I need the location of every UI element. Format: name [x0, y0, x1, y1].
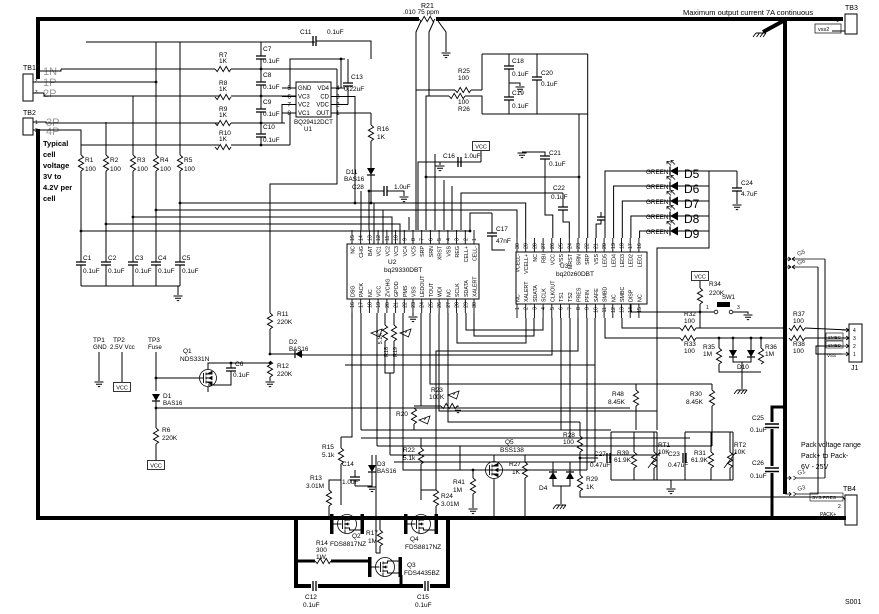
svg-text:13: 13: [620, 307, 626, 313]
junction: [132, 216, 135, 219]
wire R13 to Q2 gate: [328, 506, 330, 512]
LED D5 green: [670, 167, 678, 176]
svg-text:2: 2: [463, 238, 469, 241]
svg-text:PMS: PMS: [403, 285, 409, 297]
svg-text:TB1: TB1: [23, 65, 36, 72]
svg-text:SRP: SRP: [585, 254, 591, 265]
U2 pin 7 SRP: [421, 230, 423, 244]
svg-text:C15: C15: [417, 594, 429, 601]
svg-text:NC: NC: [516, 294, 522, 302]
svg-text:8.45K: 8.45K: [608, 399, 626, 406]
resistor R25 100: [455, 87, 471, 92]
wire FET block left: [294, 518, 298, 587]
svg-text:SDATA: SDATA: [464, 280, 470, 297]
U2 pin 20 ZVCHG: [386, 299, 388, 313]
wire: [494, 455, 525, 461]
wire: [579, 452, 581, 475]
svg-text:GREEN: GREEN: [646, 229, 669, 236]
wire: [553, 479, 570, 486]
svg-text:GREEN: GREEN: [646, 199, 669, 206]
svg-text:TB2: TB2: [23, 110, 36, 117]
wire: [524, 478, 526, 518]
svg-text:0.1uF: 0.1uF: [182, 268, 199, 275]
svg-text:0.22uF: 0.22uF: [344, 86, 364, 93]
svg-text:19: 19: [376, 302, 382, 308]
wire C22 top: [562, 193, 564, 207]
wire R25 out: [471, 89, 482, 91]
capacitor C3 0.1uF: [128, 262, 138, 265]
resistor R17 1M: [377, 530, 382, 546]
svg-text:VC2: VC2: [385, 246, 391, 256]
svg-text:SCLK: SCLK: [542, 288, 548, 302]
wire RT rail: [361, 429, 611, 431]
svg-text:1: 1: [35, 120, 38, 126]
resistor R32 100: [680, 325, 696, 330]
svg-text:0.1uF: 0.1uF: [263, 58, 280, 65]
svg-text:0.1uF: 0.1uF: [263, 84, 280, 91]
J1 pin 3: [842, 336, 849, 340]
svg-text:NC: NC: [533, 254, 539, 262]
resistor R30 8.45K: [709, 390, 714, 406]
wire: [678, 170, 737, 172]
ground below C5: [174, 296, 183, 301]
wire FET block right: [446, 518, 450, 587]
wire: [569, 462, 571, 472]
svg-text:BAS16: BAS16: [289, 346, 309, 353]
svg-text:22: 22: [585, 243, 591, 249]
svg-text:R29: R29: [586, 476, 598, 483]
U3 pin 1 NC: [516, 304, 518, 318]
svg-text:61.9K: 61.9K: [614, 457, 632, 464]
capacitor C4 0.1uF: [151, 262, 161, 265]
wire: [435, 506, 437, 512]
wire 1P: [33, 81, 156, 83]
svg-text:R1: R1: [85, 157, 94, 164]
diode D1 BAS16: [152, 394, 160, 401]
wire: [413, 424, 415, 430]
wire: [492, 236, 505, 250]
svg-text:4.7uF: 4.7uF: [741, 191, 758, 198]
svg-text:4: 4: [446, 238, 452, 241]
capacitor C22 0.1uF: [558, 207, 568, 210]
wire R5 to C5: [179, 171, 181, 262]
svg-text:5: 5: [550, 307, 556, 310]
U3 pin 4 SCLK: [542, 304, 544, 318]
svg-text:C22: C22: [553, 185, 565, 192]
svg-text:8: 8: [576, 307, 582, 310]
svg-text:10: 10: [593, 307, 599, 313]
svg-text:.010 75 ppm: .010 75 ppm: [403, 9, 439, 16]
junction: [155, 377, 158, 380]
svg-text:100: 100: [563, 439, 574, 446]
VCC label R6: [148, 461, 165, 470]
resistor R16 1K: [368, 125, 373, 141]
wire: [382, 210, 384, 244]
capacitor C20 0.1uF: [532, 77, 542, 80]
wire C16 rail: [440, 161, 481, 163]
junction: [155, 407, 158, 410]
svg-text:0.47uF: 0.47uF: [668, 462, 688, 469]
svg-text:SMBC: SMBC: [620, 287, 626, 302]
svg-text:GREEN: GREEN: [646, 214, 669, 221]
svg-text:0.1uF: 0.1uF: [541, 81, 558, 88]
wire U1 pin 3: [331, 96, 345, 98]
wire OUT right: [345, 112, 371, 114]
resistor R10 1K: [215, 144, 231, 149]
svg-text:NC: NC: [351, 246, 357, 254]
wire R33 out: [696, 337, 785, 339]
svg-text:BAS16: BAS16: [377, 468, 397, 475]
wire VD4 up: [340, 59, 342, 88]
svg-text:1.0uF: 1.0uF: [464, 153, 481, 160]
junction: [370, 202, 373, 205]
wire R3 riser: [132, 96, 134, 155]
svg-text:R32: R32: [684, 311, 696, 318]
svg-text:1K: 1K: [219, 112, 228, 119]
wire: [552, 462, 554, 472]
svg-text:R31: R31: [694, 450, 706, 457]
transistor Q4 FDS8817NZ: [404, 514, 408, 534]
wire: [329, 480, 341, 490]
svg-text:10: 10: [394, 235, 400, 241]
resistor R23 100K: [441, 403, 457, 408]
wire C25 branch top: [772, 407, 785, 422]
U3 pin 21 VSS: [594, 238, 596, 252]
svg-text:C12: C12: [305, 594, 317, 601]
connector J1: [849, 324, 862, 362]
wire: [653, 432, 655, 452]
svg-text:0.1uF: 0.1uF: [512, 103, 529, 110]
wire U1 pin 2: [331, 104, 345, 106]
junction: [425, 176, 428, 179]
svg-text:0.1uF: 0.1uF: [83, 268, 100, 275]
svg-text:2P: 2P: [43, 88, 56, 100]
U2 pin 6 SRN: [429, 230, 431, 244]
svg-text:S001: S001: [845, 599, 861, 606]
svg-text:1: 1: [472, 238, 478, 241]
svg-text:SDATA: SDATA: [533, 285, 539, 302]
ground at C16: [436, 166, 445, 171]
U3 pin 19 LED4: [612, 238, 614, 252]
U3 pin 5 CLKOUT: [551, 304, 553, 318]
wire C26 to PACK+ rail: [771, 473, 774, 518]
wire D10 to gnd: [741, 362, 743, 389]
svg-text:3: 3: [853, 336, 856, 342]
wire cell bus 3: [133, 217, 392, 244]
U3 pin 28 NC: [533, 238, 535, 252]
svg-text:20: 20: [385, 302, 391, 308]
wire R5 riser: [179, 42, 181, 155]
svg-text:25: 25: [428, 302, 434, 308]
wire: [610, 432, 612, 480]
connector TB3: [845, 14, 857, 34]
svg-text:Q4: Q4: [410, 536, 419, 543]
wire D1 bus right: [156, 407, 630, 409]
wire down to bus: [370, 191, 372, 203]
wire R38 to J1: [805, 337, 849, 339]
svg-text:2: 2: [853, 344, 856, 350]
svg-text:0.1uF: 0.1uF: [158, 268, 175, 275]
svg-text:C5: C5: [182, 255, 191, 262]
svg-text:4: 4: [541, 307, 547, 310]
wire bus 3: [377, 445, 712, 447]
wire D8 to bus: [678, 215, 709, 217]
wire R15 down: [340, 464, 342, 505]
wire TS2 down: [569, 318, 571, 438]
svg-text:cell: cell: [43, 150, 56, 159]
U3 pin 9 PFIN: [586, 304, 588, 318]
svg-text:6: 6: [559, 307, 565, 310]
junction: [469, 230, 472, 233]
svg-text:R35: R35: [703, 344, 715, 351]
U2 pin 28 SCLK: [456, 299, 458, 313]
svg-text:18: 18: [367, 302, 373, 308]
capacitor C13 0.22uF: [343, 83, 353, 86]
wire 2P to R8: [33, 93, 220, 96]
junction: [155, 209, 158, 212]
wire SYS PRES row: [580, 491, 843, 497]
U3 pin 7 TS2: [568, 304, 570, 318]
transistor Q2 FDS8817NZ: [330, 514, 334, 534]
wire: [729, 468, 731, 480]
svg-text:R17: R17: [366, 530, 378, 537]
wire GPOD down: [403, 313, 587, 470]
U2 pin 13 BAT: [368, 230, 370, 244]
U2 pin 29 SDATA: [464, 299, 466, 313]
chassis ground at D10: [734, 390, 747, 394]
LED D6 green: [670, 182, 678, 191]
capacitor C9 0.1uF: [256, 109, 266, 112]
svg-text:VSS: VSS: [412, 286, 418, 297]
svg-text:BAS16: BAS16: [163, 400, 183, 407]
svg-text:CD: CD: [320, 95, 329, 101]
ground RT block: [667, 489, 676, 494]
wire: [560, 486, 562, 504]
capacitor C7 0.1uF: [256, 56, 266, 59]
U2 pin 2 CELL+: [464, 230, 466, 244]
wire G6 to G3: [817, 267, 819, 494]
svg-text:61.9K: 61.9K: [691, 457, 709, 464]
wire LEDOUT bus: [430, 313, 712, 384]
svg-text:10K: 10K: [734, 449, 746, 456]
svg-text:R12: R12: [277, 363, 289, 370]
wire R11 to node: [269, 329, 271, 354]
svg-text:1: 1: [515, 307, 521, 310]
wire G5 to G1: [824, 259, 826, 478]
ground at SW1: [744, 315, 753, 320]
wire VC1 to R10 row: [290, 113, 296, 145]
svg-text:300: 300: [316, 547, 327, 554]
wire: [729, 432, 731, 452]
svg-text:26: 26: [437, 302, 443, 308]
chassis ground at PACK- node: [753, 33, 766, 37]
svg-text:1.0uF: 1.0uF: [394, 184, 411, 191]
svg-text:30: 30: [515, 243, 521, 249]
svg-text:R23: R23: [431, 387, 443, 394]
svg-text:R3: R3: [137, 157, 146, 164]
svg-text:21: 21: [394, 302, 400, 308]
svg-text:PACK-: PACK-: [814, 17, 829, 23]
wire C21 rail: [522, 152, 545, 156]
wire top to C7: [260, 42, 262, 56]
svg-text:100: 100: [793, 318, 804, 325]
svg-text:3: 3: [532, 307, 538, 310]
svg-text:NDS331N: NDS331N: [180, 356, 210, 363]
wire: [580, 457, 598, 459]
wire: [270, 353, 295, 355]
U3 pin 15 NC: [638, 304, 640, 318]
U3 pin 23 SRN: [577, 238, 579, 252]
svg-text:U2: U2: [388, 259, 397, 266]
wire: [609, 457, 611, 459]
svg-text:1K: 1K: [219, 136, 228, 143]
svg-text:1: 1: [853, 352, 856, 358]
wire VDC stub: [345, 104, 348, 106]
svg-text:1K: 1K: [377, 134, 386, 141]
wire LED5 net: [605, 171, 670, 238]
diode D4b: [566, 472, 574, 479]
wire: [384, 313, 386, 325]
svg-text:13: 13: [367, 235, 373, 241]
capacitor C24 4.7uF: [732, 188, 742, 191]
wire C22 to U3 MRST: [563, 210, 569, 238]
wire R37 to J1: [805, 328, 849, 330]
svg-text:BQ29412DCT: BQ29412DCT: [294, 119, 333, 126]
wire: [355, 472, 372, 486]
wire LED3 net: [622, 201, 670, 238]
wire C10 down: [260, 137, 262, 145]
svg-text:XALERT: XALERT: [473, 276, 479, 297]
J1 pin 1: [842, 352, 849, 356]
svg-text:LED4: LED4: [611, 254, 617, 267]
wire: [208, 371, 231, 385]
svg-text:CHG: CHG: [359, 246, 365, 258]
wire SW1 to gnd: [733, 312, 748, 314]
resistor R22 5.1k: [418, 448, 423, 464]
svg-text:5: 5: [437, 238, 443, 241]
wire D11 down: [370, 175, 372, 191]
svg-text:25: 25: [559, 243, 565, 249]
wire to C28: [371, 190, 384, 192]
diode D2 BAS16: [295, 350, 302, 358]
ground R23: [454, 408, 463, 413]
svg-text:VC1: VC1: [377, 246, 383, 256]
wire: [415, 90, 417, 230]
wire: [579, 422, 581, 436]
resistor R3 100: [130, 155, 135, 171]
svg-text:1K: 1K: [219, 58, 228, 65]
wire: [718, 338, 720, 348]
svg-text:R27: R27: [509, 461, 521, 468]
wire: [376, 546, 380, 553]
svg-text:100: 100: [793, 348, 804, 355]
svg-text:NC: NC: [446, 289, 452, 297]
U3 pin 30 VCELL-: [516, 238, 518, 252]
svg-text:R34: R34: [709, 281, 721, 288]
ground R41: [469, 509, 478, 514]
wire SRN row: [426, 176, 579, 178]
svg-text:27: 27: [446, 302, 452, 308]
wire R21 kelvin left: [416, 21, 421, 90]
wire D10a top: [732, 338, 734, 350]
svg-text:SRN: SRN: [429, 246, 435, 257]
svg-text:3.01M: 3.01M: [441, 501, 459, 508]
svg-text:18: 18: [620, 243, 626, 249]
capacitor C2 0.1uF: [101, 262, 111, 265]
resistor R19 5.1K: [391, 325, 396, 341]
wire CELL- row: [470, 213, 492, 230]
wire DISP to SW1: [631, 304, 714, 312]
svg-text:BAS16: BAS16: [344, 176, 365, 183]
wire: [435, 512, 437, 518]
wire: [670, 480, 672, 488]
wire U1 pin 4: [331, 87, 345, 89]
svg-text:5.1k: 5.1k: [403, 455, 416, 462]
wire U1 pin 6: [282, 96, 296, 98]
svg-text:0.1uF: 0.1uF: [750, 473, 767, 480]
resistor R48 8.45K: [633, 390, 638, 406]
ground U2 VSS: [409, 317, 418, 322]
wire ZVCHG to Q3 gate: [375, 455, 377, 553]
svg-text:J1: J1: [851, 365, 859, 372]
off-page connector G5: [787, 257, 825, 261]
U2 pin 4 VSS: [447, 230, 449, 244]
wire PFIN down: [586, 318, 588, 470]
U2 pin 25 TOUT: [429, 299, 431, 313]
svg-text:17: 17: [359, 302, 365, 308]
svg-text:R20: R20: [396, 411, 408, 418]
wire U1 GND up: [290, 59, 345, 88]
svg-text:C1: C1: [83, 255, 92, 262]
svg-text:C19: C19: [512, 90, 524, 97]
junction: [260, 144, 263, 147]
wire: [635, 384, 637, 390]
wire BAT up: [368, 191, 370, 230]
wire CLKOUT left bus: [302, 318, 552, 355]
svg-text:U1: U1: [304, 126, 312, 133]
wire: [684, 432, 686, 480]
svg-text:C4: C4: [158, 255, 167, 262]
svg-text:XALERT: XALERT: [524, 281, 530, 302]
wire R26 out: [465, 96, 482, 114]
ground TP1: [95, 382, 104, 387]
junction: [230, 362, 233, 365]
svg-text:3V to: 3V to: [43, 172, 62, 181]
wire R7 out: [231, 68, 337, 70]
ground at C28: [400, 197, 409, 202]
wire R7 to R11: [270, 69, 337, 305]
svg-text:0.47uF: 0.47uF: [590, 462, 610, 469]
wire SCLK across: [466, 313, 543, 330]
wire C25-C26 link: [771, 429, 774, 466]
svg-text:0.1uF: 0.1uF: [512, 71, 529, 78]
svg-text:TP1: TP1: [93, 337, 105, 344]
ground at C21: [518, 153, 527, 158]
svg-text:15: 15: [350, 235, 356, 241]
wire bottom PACK+ rail: [36, 516, 846, 520]
wire: [426, 96, 429, 230]
svg-text:LED5: LED5: [603, 254, 609, 267]
svg-text:R22: R22: [403, 447, 415, 454]
wire: [711, 384, 713, 390]
svg-text:2: 2: [838, 504, 841, 510]
wire cap common: [81, 285, 180, 287]
wire: [393, 341, 395, 373]
U3 pin 2 XALERT: [525, 304, 527, 318]
resistor R41 1M: [470, 478, 475, 494]
connector TB4: [845, 495, 857, 525]
wire U1 pin 5: [282, 87, 296, 89]
